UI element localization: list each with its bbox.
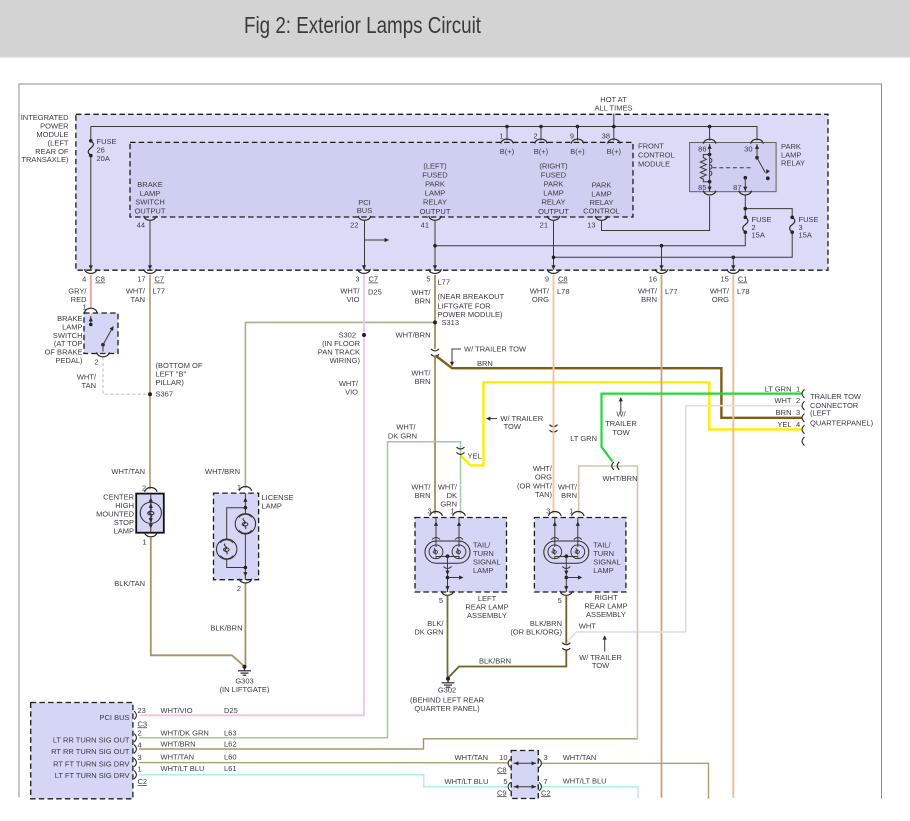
svg-text:3: 3 bbox=[546, 507, 550, 516]
svg-text:5: 5 bbox=[558, 596, 562, 605]
svg-text:L77: L77 bbox=[153, 287, 166, 296]
stop lamp bulb bbox=[140, 494, 161, 533]
S313 location label bbox=[438, 292, 505, 327]
svg-text:3: 3 bbox=[427, 507, 431, 516]
svg-text:L60: L60 bbox=[224, 752, 237, 761]
svg-text:LT GRN: LT GRN bbox=[570, 434, 597, 443]
power bus wire bbox=[91, 127, 757, 141]
svg-text:BRN: BRN bbox=[561, 491, 577, 500]
svg-text:13: 13 bbox=[587, 220, 595, 229]
svg-text:85: 85 bbox=[698, 183, 706, 192]
svg-text:WHT/TAN: WHT/TAN bbox=[455, 753, 489, 762]
svg-text:3: 3 bbox=[796, 408, 800, 417]
right tail/turn signal lamp box bbox=[534, 518, 626, 593]
svg-text:TRAILER TOW: TRAILER TOW bbox=[810, 392, 862, 401]
svg-text:BRN: BRN bbox=[415, 491, 431, 500]
PCI bus module box bbox=[31, 703, 133, 799]
svg-text:BLK/BRN: BLK/BRN bbox=[479, 657, 511, 666]
svg-text:TAN: TAN bbox=[131, 295, 145, 304]
svg-text:TOW: TOW bbox=[592, 661, 610, 670]
B(+) pin 1 bbox=[499, 127, 514, 156]
svg-text:YEL: YEL bbox=[468, 452, 482, 461]
svg-text:CONTROL: CONTROL bbox=[638, 151, 675, 160]
wire WHT/ORG L78 pin15 down bbox=[732, 275, 734, 798]
svg-text:15A: 15A bbox=[799, 231, 812, 240]
svg-text:LAMP: LAMP bbox=[543, 189, 563, 198]
park lamp relay box bbox=[690, 142, 805, 192]
svg-text:15: 15 bbox=[720, 275, 728, 284]
wire BLK/TAN to G303 bbox=[151, 538, 245, 667]
left lamp wire labels bbox=[411, 483, 458, 509]
svg-text:DK GRN: DK GRN bbox=[388, 431, 417, 440]
svg-text:LAMP: LAMP bbox=[425, 189, 445, 198]
right lamp internals bbox=[544, 518, 589, 593]
svg-text:5: 5 bbox=[439, 596, 443, 605]
brake lamp switch box bbox=[84, 313, 118, 354]
svg-text:WHT: WHT bbox=[774, 396, 791, 405]
wire right pin5 down bbox=[565, 596, 567, 644]
B(+) pin 9 bbox=[570, 127, 585, 156]
svg-text:L77: L77 bbox=[665, 287, 678, 296]
svg-text:BLK/TAN: BLK/TAN bbox=[114, 579, 145, 588]
svg-text:WHT/LT BLU: WHT/LT BLU bbox=[161, 764, 205, 773]
fuse 3 15A bbox=[790, 215, 819, 240]
svg-text:VIO: VIO bbox=[345, 387, 358, 396]
svg-text:WHT/LT BLU: WHT/LT BLU bbox=[445, 777, 489, 786]
right rear lamp assembly label bbox=[584, 593, 627, 619]
svg-text:RELAY: RELAY bbox=[781, 158, 805, 167]
svg-text:1: 1 bbox=[142, 538, 146, 547]
wire BLK/DK GRN left pin5 to G302 bbox=[447, 596, 449, 679]
stop lamp label bbox=[96, 493, 134, 536]
breakout on wht/brn bbox=[431, 349, 439, 356]
svg-text:22: 22 bbox=[350, 220, 358, 229]
svg-text:1: 1 bbox=[569, 507, 573, 516]
B(+) pin 38 bbox=[602, 132, 622, 156]
brake lamp switch output label bbox=[135, 180, 166, 215]
S302 splice bbox=[318, 331, 366, 397]
svg-text:C1: C1 bbox=[738, 275, 748, 284]
hot feed wire bbox=[613, 114, 615, 141]
svg-text:B(+): B(+) bbox=[534, 147, 549, 156]
brake switch contacts bbox=[89, 316, 116, 352]
fuse 26 20A bbox=[88, 127, 116, 164]
relay pin 30 switch bbox=[744, 127, 770, 181]
svg-text:1: 1 bbox=[237, 483, 241, 492]
wire pin21 down bbox=[553, 221, 555, 270]
svg-text:ASSEMBLY: ASSEMBLY bbox=[586, 610, 626, 619]
wire 87 to fuses bbox=[745, 196, 792, 218]
IPM bottom connector pins bbox=[82, 265, 747, 283]
svg-text:WHT: WHT bbox=[579, 622, 596, 631]
svg-text:OUTPUT: OUTPUT bbox=[135, 206, 166, 215]
svg-text:S367: S367 bbox=[156, 390, 174, 399]
brake lamp switch pin 1 bbox=[82, 303, 97, 313]
svg-text:C2: C2 bbox=[541, 788, 551, 797]
svg-text:16: 16 bbox=[649, 275, 657, 284]
svg-text:C2: C2 bbox=[138, 777, 148, 786]
wire pin41 down bbox=[434, 221, 436, 270]
svg-text:ORG: ORG bbox=[535, 473, 552, 482]
hot at all times label bbox=[595, 95, 633, 113]
svg-text:BRN: BRN bbox=[776, 408, 792, 417]
wire fuse26 to pin 4 bbox=[90, 156, 92, 270]
wire BLK/BRN right lamp to G302 bbox=[448, 651, 566, 679]
svg-text:RT RR TURN SIG OUT: RT RR TURN SIG OUT bbox=[51, 747, 130, 756]
svg-text:21: 21 bbox=[540, 220, 548, 229]
S367 splice bbox=[148, 361, 203, 399]
svg-text:9: 9 bbox=[545, 275, 549, 284]
svg-text:C9: C9 bbox=[497, 788, 507, 797]
svg-text:C8: C8 bbox=[95, 275, 105, 284]
ground G302 bbox=[410, 677, 485, 713]
relay coil bbox=[700, 153, 712, 184]
svg-text:2: 2 bbox=[237, 584, 241, 593]
right lamp pin 3 bbox=[546, 507, 561, 516]
svg-text:C8: C8 bbox=[558, 275, 568, 284]
svg-text:TAN: TAN bbox=[82, 381, 96, 390]
svg-text:9: 9 bbox=[570, 132, 574, 141]
wht/tan dashed label bbox=[77, 373, 97, 390]
svg-text:WHT/BRN: WHT/BRN bbox=[161, 740, 196, 749]
pin wire color labels row bbox=[68, 278, 749, 306]
connector row WHT/TAN bbox=[455, 753, 597, 775]
breakout on green wire bbox=[457, 447, 465, 454]
svg-text:86: 86 bbox=[698, 145, 706, 154]
svg-text:2: 2 bbox=[94, 358, 98, 367]
wire to pin 16 bbox=[661, 246, 663, 270]
svg-text:WHT/LT BLU: WHT/LT BLU bbox=[563, 776, 607, 785]
license lamp pin 1 bbox=[237, 483, 252, 492]
integrated power module box bbox=[76, 114, 828, 270]
svg-text:VIO: VIO bbox=[347, 295, 360, 304]
svg-text:L62: L62 bbox=[224, 740, 237, 749]
svg-text:2: 2 bbox=[142, 484, 146, 493]
fuse 2 15A bbox=[743, 215, 772, 240]
svg-text:(OR BLK/ORG): (OR BLK/ORG) bbox=[510, 628, 562, 637]
svg-text:(IN LIFTGATE): (IN LIFTGATE) bbox=[220, 685, 270, 694]
svg-text:LIFTGATE FOR: LIFTGATE FOR bbox=[438, 301, 492, 310]
left lamp pin 3 bbox=[427, 507, 442, 516]
svg-text:RT FT TURN SIG DRV: RT FT TURN SIG DRV bbox=[53, 760, 129, 769]
WHT trailer tow wire bbox=[567, 406, 803, 642]
svg-text:HOT AT: HOT AT bbox=[600, 95, 627, 104]
svg-text:ORG: ORG bbox=[532, 295, 549, 304]
svg-text:7: 7 bbox=[544, 777, 548, 786]
svg-text:S313: S313 bbox=[442, 318, 460, 327]
svg-text:BRN: BRN bbox=[415, 377, 431, 386]
license lamp internals bbox=[217, 493, 256, 580]
FCM pin 21 bbox=[540, 216, 560, 229]
liftgate connector box bbox=[511, 751, 538, 799]
stop lamp pin 2 bbox=[142, 484, 157, 493]
svg-text:(NEAR BREAKOUT: (NEAR BREAKOUT bbox=[438, 292, 505, 301]
svg-text:G302: G302 bbox=[438, 686, 456, 695]
center high mounted stop lamp box bbox=[136, 494, 164, 533]
left rear lamp assembly label bbox=[465, 594, 508, 620]
wht/brn mid label bbox=[411, 369, 431, 387]
right lamp wire labels bbox=[517, 464, 578, 500]
svg-text:23: 23 bbox=[138, 706, 146, 715]
svg-text:5: 5 bbox=[503, 777, 507, 786]
svg-text:LAMP: LAMP bbox=[140, 189, 160, 198]
svg-text:WHT/BRN: WHT/BRN bbox=[396, 331, 431, 340]
svg-text:FUSED: FUSED bbox=[422, 170, 448, 179]
svg-text:PCI BUS: PCI BUS bbox=[99, 713, 129, 722]
svg-text:OUTPUT: OUTPUT bbox=[538, 207, 569, 216]
FCM pin 22 bbox=[350, 216, 371, 229]
svg-text:LT GRN: LT GRN bbox=[765, 384, 792, 393]
wire WHT/BRN pin5 down bbox=[434, 275, 436, 349]
connector row WHT/LT BLU bbox=[445, 776, 607, 797]
svg-text:Fig 2: Exterior Lamps Circuit: Fig 2: Exterior Lamps Circuit bbox=[244, 12, 481, 38]
relay pin 87 bbox=[733, 176, 751, 195]
wht/dk grn label bbox=[388, 422, 417, 440]
(left) fused park lamp relay output label bbox=[420, 161, 451, 216]
relay pin 86 bbox=[698, 127, 716, 155]
wire pin22 down with pci arrow bbox=[365, 221, 390, 270]
PCI line labels bbox=[161, 706, 238, 773]
svg-text:PARK: PARK bbox=[544, 180, 564, 189]
svg-text:BRN: BRN bbox=[415, 297, 431, 306]
left lamp label bbox=[473, 541, 501, 576]
svg-text:PILLAR): PILLAR) bbox=[156, 378, 185, 387]
dashed wire to S367 bbox=[103, 358, 147, 395]
svg-text:PARK: PARK bbox=[425, 180, 445, 189]
svg-text:1: 1 bbox=[499, 132, 503, 141]
LT GRN wire to trailer tow bbox=[602, 394, 803, 462]
svg-text:41: 41 bbox=[421, 220, 429, 229]
svg-text:C3: C3 bbox=[138, 719, 148, 728]
svg-text:WIRING): WIRING) bbox=[330, 356, 361, 365]
license lamp box bbox=[214, 493, 294, 580]
svg-text:ORG: ORG bbox=[712, 295, 729, 304]
fuse3 output bus bbox=[554, 232, 793, 257]
svg-text:TAN): TAN) bbox=[535, 490, 552, 499]
svg-text:OUTPUT: OUTPUT bbox=[420, 207, 451, 216]
svg-text:1: 1 bbox=[138, 764, 142, 773]
FCM pin 41 bbox=[421, 216, 442, 229]
svg-text:44: 44 bbox=[137, 220, 145, 229]
svg-text:WHT/BRN: WHT/BRN bbox=[205, 467, 240, 476]
w/ trailer tow pointer wht bbox=[579, 635, 622, 670]
svg-text:LT FT TURN SIG DRV: LT FT TURN SIG DRV bbox=[55, 771, 130, 780]
header bar bbox=[0, 0, 910, 58]
svg-text:1: 1 bbox=[82, 303, 86, 312]
B(+) pin 2 bbox=[533, 127, 548, 156]
svg-text:BRAKE: BRAKE bbox=[137, 180, 162, 189]
svg-text:BLK/BRN: BLK/BRN bbox=[210, 624, 242, 633]
svg-text:BRN: BRN bbox=[477, 359, 493, 368]
wire WHT/TAN pin17 down bbox=[149, 275, 151, 490]
svg-text:3: 3 bbox=[544, 753, 548, 762]
svg-text:4: 4 bbox=[82, 275, 86, 284]
svg-text:TOW: TOW bbox=[504, 422, 522, 431]
brake lamp switch label bbox=[45, 314, 83, 365]
svg-text:(RIGHT): (RIGHT) bbox=[539, 161, 568, 170]
svg-text:L77: L77 bbox=[438, 278, 451, 287]
w/ trailer tow pointer yellow bbox=[486, 414, 544, 431]
park lamp relay control label bbox=[583, 181, 620, 216]
left lamp pin 1 bbox=[450, 507, 465, 516]
svg-text:GRN: GRN bbox=[440, 500, 457, 509]
FCM pin 13 bbox=[587, 216, 608, 229]
svg-text:87: 87 bbox=[733, 183, 741, 192]
IPM label bbox=[21, 113, 69, 164]
svg-text:10: 10 bbox=[499, 753, 507, 762]
breakout right pin5 bbox=[562, 643, 570, 650]
WHT/DK GRN wire from PCI to left lamp pin1 bbox=[139, 442, 461, 738]
svg-text:FUSED: FUSED bbox=[541, 170, 567, 179]
svg-text:2: 2 bbox=[138, 728, 142, 737]
breakout pair on pale wire bbox=[612, 462, 619, 470]
svg-text:B(+): B(+) bbox=[500, 147, 515, 156]
svg-text:ALL TIMES: ALL TIMES bbox=[595, 104, 633, 113]
svg-text:D25: D25 bbox=[368, 288, 382, 297]
fuse2 output bus bbox=[435, 232, 745, 246]
ground G303 bbox=[220, 665, 270, 694]
svg-text:TRANSAXLE): TRANSAXLE) bbox=[21, 155, 69, 164]
svg-text:RELAY: RELAY bbox=[541, 198, 565, 207]
svg-text:W/: W/ bbox=[616, 410, 626, 419]
svg-text:C7: C7 bbox=[369, 275, 379, 284]
svg-text:WHT/TAN: WHT/TAN bbox=[161, 752, 195, 761]
svg-text:LAMP: LAMP bbox=[473, 566, 493, 575]
svg-text:PARK: PARK bbox=[592, 181, 612, 190]
relay pin 85 bbox=[698, 182, 716, 195]
svg-text:RELAY: RELAY bbox=[423, 198, 447, 207]
svg-text:LAMP: LAMP bbox=[262, 501, 282, 510]
svg-text:BUS: BUS bbox=[357, 206, 372, 215]
svg-text:WHT/TAN: WHT/TAN bbox=[563, 753, 597, 762]
wire BLK/BRN license to G303 bbox=[244, 584, 246, 667]
svg-text:L63: L63 bbox=[224, 728, 237, 737]
svg-text:L78: L78 bbox=[557, 287, 570, 296]
svg-text:L61: L61 bbox=[224, 764, 237, 773]
brake switch pin 2 bbox=[94, 352, 109, 366]
svg-text:(LEFT: (LEFT bbox=[810, 409, 831, 418]
front control module box bbox=[130, 142, 675, 218]
svg-text:ASSEMBLY: ASSEMBLY bbox=[467, 611, 507, 620]
svg-text:WHT/: WHT/ bbox=[396, 422, 416, 431]
svg-text:LT RR TURN SIG OUT: LT RR TURN SIG OUT bbox=[53, 736, 130, 745]
svg-text:YEL: YEL bbox=[777, 420, 791, 429]
svg-text:3: 3 bbox=[355, 275, 359, 284]
svg-text:FRONT: FRONT bbox=[638, 142, 664, 151]
svg-text:5: 5 bbox=[426, 275, 430, 284]
svg-text:2: 2 bbox=[796, 396, 800, 405]
svg-text:CONTROL: CONTROL bbox=[583, 207, 620, 216]
right lamp pin 1 bbox=[569, 507, 584, 516]
bus junction nodes bbox=[505, 125, 711, 129]
svg-text:C8: C8 bbox=[497, 765, 507, 774]
svg-text:QUARTER PANEL): QUARTER PANEL) bbox=[414, 704, 480, 713]
svg-text:SWITCH: SWITCH bbox=[135, 198, 165, 207]
svg-text:B(+): B(+) bbox=[607, 147, 622, 156]
left tail/turn signal lamp box bbox=[415, 518, 507, 593]
breakout on WHT/ORG wire bbox=[550, 425, 558, 432]
svg-text:4: 4 bbox=[138, 740, 142, 749]
wire GRY/RED pin4 to brake switch bbox=[90, 275, 92, 309]
svg-text:LAMP: LAMP bbox=[114, 527, 134, 536]
relay armature dashed link bbox=[713, 167, 754, 169]
svg-text:4: 4 bbox=[796, 420, 800, 429]
svg-text:D25: D25 bbox=[224, 706, 238, 715]
left lamp pin 5 bbox=[439, 591, 454, 605]
wire WHT/LT BLU L61 bbox=[139, 775, 509, 787]
svg-text:TRAILER: TRAILER bbox=[605, 419, 637, 428]
wire pin13 to relay pin85 bbox=[602, 196, 710, 230]
wire WHT/TAN L60 bbox=[139, 762, 509, 764]
wire WHT/BRN L77 pin16 down bbox=[661, 275, 663, 798]
license lamp pin 2 bbox=[237, 579, 252, 593]
svg-text:2: 2 bbox=[533, 132, 537, 141]
svg-text:BRN: BRN bbox=[641, 295, 657, 304]
L62 wire from PCI bbox=[139, 739, 638, 749]
svg-text:C7: C7 bbox=[155, 275, 165, 284]
right lamp label bbox=[593, 541, 621, 576]
pci bus label bbox=[357, 198, 372, 215]
trailer tow connector bbox=[765, 384, 874, 445]
WHT/BRN pale wire right lamp pin1 from L62 bbox=[579, 466, 638, 739]
svg-text:3: 3 bbox=[138, 753, 142, 762]
PCI labels bbox=[51, 713, 130, 780]
w/ trailer tow pointer green bbox=[605, 397, 637, 437]
svg-text:DK GRN: DK GRN bbox=[414, 628, 443, 637]
svg-text:L78: L78 bbox=[737, 287, 750, 296]
license lamp feed from S313 bbox=[245, 322, 435, 488]
YEL trailer tow wire bbox=[461, 382, 803, 465]
wire WHT/ORG pin9 to right lamp bbox=[553, 275, 555, 514]
svg-text:38: 38 bbox=[602, 132, 610, 141]
svg-text:17: 17 bbox=[137, 275, 145, 284]
svg-text:W/ TRAILER TOW: W/ TRAILER TOW bbox=[464, 345, 527, 354]
BRN trailer tow wire bbox=[436, 356, 803, 418]
FCM pin 44 bbox=[137, 216, 157, 229]
svg-text:30: 30 bbox=[744, 145, 752, 154]
svg-text:WHT/BRN: WHT/BRN bbox=[603, 474, 638, 483]
svg-text:B(+): B(+) bbox=[570, 147, 585, 156]
svg-text:15A: 15A bbox=[752, 231, 765, 240]
svg-text:MODULE: MODULE bbox=[638, 160, 670, 169]
svg-text:1: 1 bbox=[796, 384, 800, 393]
PCI pins bbox=[134, 706, 147, 786]
wire pin44 down bbox=[149, 221, 151, 270]
svg-text:(LEFT): (LEFT) bbox=[423, 161, 447, 170]
svg-text:20A: 20A bbox=[97, 154, 110, 163]
svg-text:LAMP: LAMP bbox=[593, 566, 613, 575]
svg-text:QUARTERPANEL): QUARTERPANEL) bbox=[810, 418, 874, 427]
svg-text:PEDAL): PEDAL) bbox=[55, 356, 83, 365]
wire WHT/VIO pin3 to PCI bbox=[140, 275, 364, 715]
svg-text:WHT/DK GRN: WHT/DK GRN bbox=[161, 728, 209, 737]
wire to pin 15 bbox=[732, 257, 734, 269]
stop lamp pin 1 bbox=[142, 532, 157, 546]
svg-text:TOW: TOW bbox=[612, 428, 630, 437]
svg-text:WHT/VIO: WHT/VIO bbox=[161, 706, 193, 715]
right lamp pin 5 bbox=[558, 591, 573, 605]
(right) fused park lamp relay output label bbox=[538, 161, 569, 216]
svg-text:WHT/TAN: WHT/TAN bbox=[111, 467, 145, 476]
left lamp internals bbox=[425, 518, 470, 593]
w/ trailer tow pointer bbox=[450, 345, 527, 367]
